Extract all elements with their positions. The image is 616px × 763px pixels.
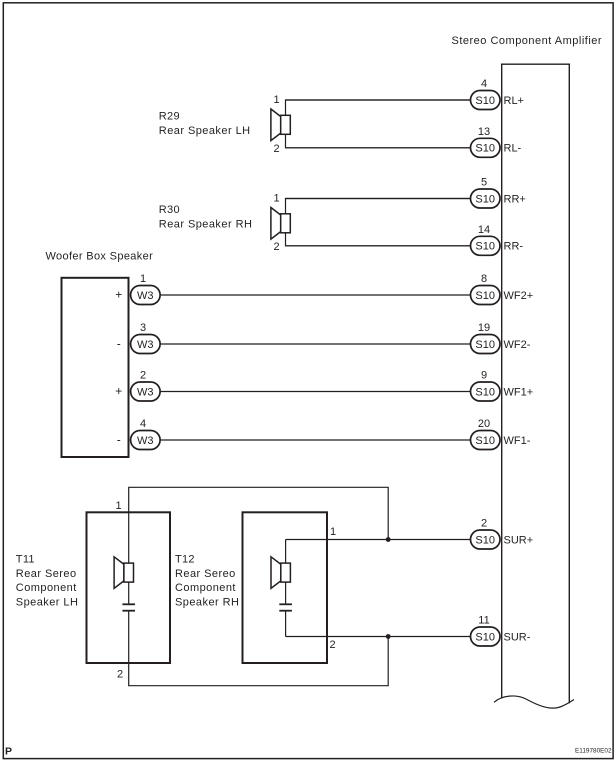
wire to RL+: [286, 99, 472, 101]
svg-text:2: 2: [481, 518, 487, 530]
connector S10 pin 19 (WF2-): [471, 335, 501, 354]
svg-text:T11: T11: [16, 554, 35, 566]
svg-text:5: 5: [481, 177, 487, 189]
wire to RL-: [286, 147, 472, 149]
svg-text:R30: R30: [159, 204, 180, 216]
svg-text:Component: Component: [175, 582, 236, 594]
svg-text:9: 9: [481, 370, 487, 382]
wire T11 pin 1 loop to SUR+: [129, 487, 389, 539]
T11 label: [16, 554, 79, 609]
svg-text:Speaker RH: Speaker RH: [175, 596, 239, 608]
connector S10 pin 11 (SUR-): [471, 627, 501, 646]
wire to SUR-: [286, 636, 471, 638]
amplifier box (Stereo Component Amplifier outline): [502, 64, 570, 703]
svg-text:13: 13: [478, 126, 490, 138]
svg-text:2: 2: [330, 639, 336, 651]
wire R30 pin 1: [286, 199, 472, 214]
svg-text:WF2-: WF2-: [504, 339, 531, 351]
svg-text:S10: S10: [475, 435, 495, 447]
wire to WF2-: [161, 343, 471, 345]
svg-text:S10: S10: [475, 143, 495, 155]
connector S10 pin 14 (RR-): [471, 236, 501, 255]
svg-text:Rear Speaker LH: Rear Speaker LH: [159, 125, 251, 137]
svg-text:14: 14: [478, 224, 490, 236]
svg-text:Rear Speaker RH: Rear Speaker RH: [159, 218, 253, 230]
svg-text:S10: S10: [475, 534, 495, 546]
wire to RR-: [286, 245, 472, 247]
connector S10 pin 20 (WF1-): [471, 431, 501, 450]
wire R29 pin 2: [286, 134, 472, 148]
svg-text:1: 1: [140, 273, 146, 285]
svg-text:WF2+: WF2+: [504, 290, 534, 302]
T12 internal wire (lower): [285, 612, 287, 637]
junction node SUR-: [386, 634, 391, 639]
connector W3 pin 4: [131, 431, 161, 450]
capacitor in T11: [122, 604, 135, 610]
connector W3 pin 1: [131, 286, 161, 305]
T12 label: [175, 554, 239, 609]
speaker symbol in T11: [114, 557, 133, 589]
capacitor in T12: [279, 604, 292, 610]
svg-text:SUR+: SUR+: [504, 534, 534, 546]
svg-text:8: 8: [481, 273, 487, 285]
connector S10 pin 2 (SUR+): [471, 530, 501, 549]
svg-text:T12: T12: [175, 554, 195, 566]
svg-text:-: -: [117, 433, 121, 447]
svg-text:SUR-: SUR-: [504, 631, 531, 643]
speaker R30 label: [159, 204, 253, 231]
amplifier torn-edge wavy bottom: [494, 696, 574, 708]
wire to WF2+: [161, 294, 471, 296]
svg-text:RR-: RR-: [504, 241, 524, 253]
T11 internal wire (lower): [128, 612, 130, 664]
T11 box outline: [87, 512, 171, 663]
svg-text:1: 1: [330, 526, 336, 538]
svg-text:-: -: [117, 337, 121, 351]
svg-text:R29: R29: [159, 111, 180, 123]
T11 internal wire (upper): [128, 512, 130, 603]
connector S10 pin 5 (RR+): [471, 189, 501, 208]
woofer box outline: [62, 278, 129, 457]
speaker symbol R29: [271, 109, 290, 141]
connector W3 pin 2: [131, 382, 161, 401]
svg-text:W3: W3: [137, 435, 154, 447]
svg-text:Woofer Box Speaker: Woofer Box Speaker: [46, 251, 154, 263]
wire to SUR+: [286, 539, 471, 541]
connector S10 pin 13 (RL-): [471, 138, 501, 157]
wire to WF1+: [161, 391, 471, 393]
svg-text:P: P: [5, 746, 12, 758]
svg-text:1: 1: [273, 94, 279, 106]
speaker symbol in T12: [271, 557, 290, 589]
svg-text:S10: S10: [475, 631, 495, 643]
svg-text:2: 2: [273, 143, 279, 155]
svg-text:2: 2: [117, 669, 123, 681]
speaker symbol R30: [271, 208, 290, 240]
svg-text:1: 1: [273, 192, 279, 204]
connector S10 pin 9 (WF1+): [471, 382, 501, 401]
wire R29 pin 1: [286, 100, 472, 115]
svg-text:11: 11: [478, 615, 489, 627]
svg-text:S10: S10: [475, 241, 495, 253]
junction node SUR+: [386, 537, 391, 542]
svg-text:2: 2: [140, 370, 146, 382]
svg-text:S10: S10: [475, 386, 495, 398]
wire T11 pin 2 loop to SUR-: [129, 637, 389, 686]
svg-text:WF1+: WF1+: [504, 386, 534, 398]
svg-text:RR+: RR+: [504, 193, 526, 205]
svg-text:S10: S10: [475, 339, 495, 351]
svg-text:4: 4: [481, 78, 487, 90]
svg-text:Rear Sereo: Rear Sereo: [16, 568, 77, 580]
svg-text:3: 3: [140, 322, 146, 334]
svg-text:E119780E02: E119780E02: [575, 748, 612, 755]
svg-text:S10: S10: [475, 95, 495, 107]
svg-text:Component: Component: [16, 582, 77, 594]
svg-text:+: +: [115, 288, 122, 302]
wire to WF1-: [161, 439, 471, 441]
connector S10 pin 8 (WF2+): [471, 286, 501, 305]
T12 box outline: [243, 512, 328, 663]
svg-text:20: 20: [478, 418, 490, 430]
connector W3 pin 3: [131, 335, 161, 354]
svg-text:W3: W3: [137, 339, 154, 351]
wire to RR+: [286, 198, 472, 200]
svg-text:S10: S10: [475, 193, 495, 205]
svg-text:2: 2: [273, 241, 279, 253]
svg-text:RL+: RL+: [504, 95, 525, 107]
svg-text:RL-: RL-: [504, 143, 522, 155]
svg-text:Stereo Component Amplifier: Stereo Component Amplifier: [452, 35, 603, 47]
svg-text:1: 1: [115, 500, 121, 512]
connector S10 pin 4 (RL+): [471, 91, 501, 110]
svg-text:Rear Sereo: Rear Sereo: [175, 568, 236, 580]
svg-text:WF1-: WF1-: [504, 435, 531, 447]
svg-text:S10: S10: [475, 290, 495, 302]
svg-text:+: +: [115, 384, 122, 398]
T12 internal wire (upper): [285, 540, 287, 604]
svg-text:19: 19: [478, 322, 490, 334]
svg-text:Speaker LH: Speaker LH: [16, 596, 79, 608]
svg-text:4: 4: [140, 418, 146, 430]
svg-text:W3: W3: [137, 386, 154, 398]
wire R30 pin 2: [286, 233, 472, 246]
speaker R29 label: [159, 111, 251, 138]
svg-text:W3: W3: [137, 290, 154, 302]
